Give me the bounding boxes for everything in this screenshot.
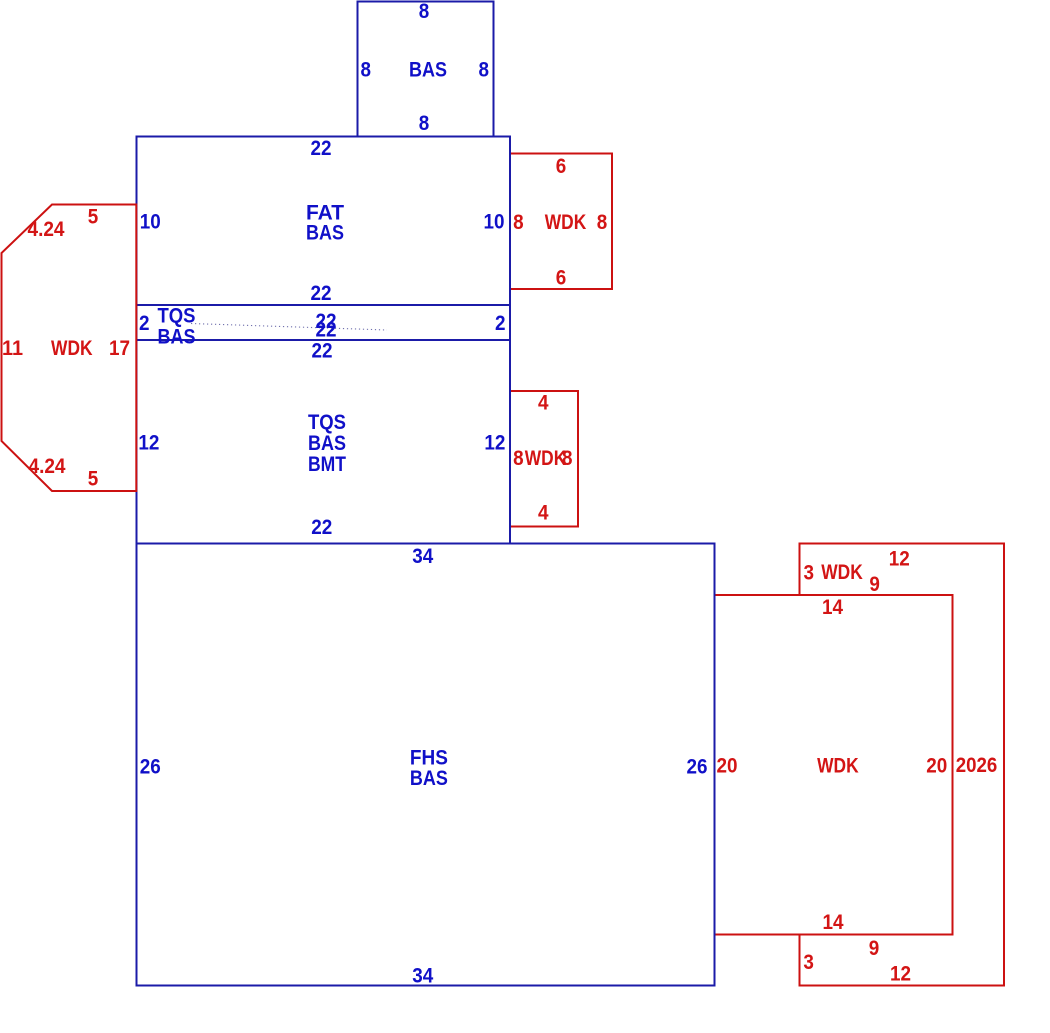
svg-text:34: 34 (412, 965, 433, 988)
svg-text:22: 22 (311, 137, 332, 160)
svg-text:BAS: BAS (306, 222, 344, 245)
svg-text:9: 9 (869, 573, 880, 596)
svg-text:2026: 2026 (956, 754, 998, 777)
svg-text:BAS: BAS (410, 767, 448, 790)
svg-text:5: 5 (88, 468, 99, 491)
svg-text:4: 4 (538, 502, 549, 525)
svg-text:2: 2 (139, 312, 150, 335)
svg-text:12: 12 (890, 963, 911, 986)
svg-text:22: 22 (316, 319, 337, 342)
svg-text:22: 22 (311, 282, 332, 305)
svg-text:8: 8 (513, 447, 524, 470)
svg-text:TQS: TQS (158, 305, 196, 328)
deck WDK 12x26 outer right (800, 544, 1005, 986)
deck WDK 14x20 right of FHS (715, 595, 953, 935)
svg-text:20: 20 (926, 755, 947, 778)
svg-text:5: 5 (88, 206, 99, 229)
deck WDK hexagon left (2, 205, 137, 492)
svg-text:6: 6 (556, 155, 567, 178)
svg-text:8: 8 (360, 59, 371, 82)
svg-text:12: 12 (138, 432, 159, 455)
svg-text:2: 2 (495, 312, 506, 335)
dotted reference line in strip (191, 324, 387, 331)
svg-text:4: 4 (538, 392, 549, 415)
deck WDK 4x8 right of TQS BMT (510, 391, 578, 527)
svg-text:WDK: WDK (821, 561, 863, 584)
svg-text:TQS: TQS (308, 411, 346, 434)
svg-text:10: 10 (484, 211, 505, 234)
svg-text:26: 26 (687, 756, 708, 779)
svg-text:4.24: 4.24 (29, 455, 66, 478)
svg-text:WDK: WDK (817, 755, 859, 778)
svg-text:6: 6 (556, 267, 567, 290)
svg-text:12: 12 (484, 432, 505, 455)
svg-text:BAS: BAS (158, 326, 196, 349)
area FAT BAS 22x10 (137, 137, 511, 306)
svg-text:BAS: BAS (308, 432, 346, 455)
svg-text:26: 26 (140, 756, 161, 779)
svg-text:34: 34 (412, 545, 433, 568)
svg-text:17: 17 (109, 337, 130, 360)
svg-text:3: 3 (804, 562, 815, 585)
area FHS BAS 34x26 (137, 544, 715, 986)
svg-text:12: 12 (889, 548, 910, 571)
svg-text:8: 8 (478, 59, 489, 82)
svg-text:8: 8 (419, 0, 430, 23)
deck WDK 6x8 right of FAT (510, 154, 612, 290)
svg-text:10: 10 (140, 211, 161, 234)
svg-text:4.24: 4.24 (28, 218, 65, 241)
svg-text:8: 8 (419, 112, 430, 135)
svg-text:20: 20 (717, 755, 738, 778)
svg-text:3: 3 (803, 951, 814, 974)
svg-text:9: 9 (869, 937, 880, 960)
svg-text:22: 22 (311, 516, 332, 539)
svg-text:BMT: BMT (308, 453, 346, 476)
svg-text:8: 8 (513, 211, 524, 234)
svg-text:BAS: BAS (409, 59, 447, 82)
svg-text:WDK: WDK (545, 211, 587, 234)
svg-text:22: 22 (312, 340, 333, 363)
svg-text:8: 8 (597, 211, 608, 234)
svg-text:WDK: WDK (525, 447, 567, 470)
svg-text:WDK: WDK (51, 337, 93, 360)
svg-text:14: 14 (822, 596, 843, 619)
svg-text:14: 14 (823, 911, 844, 934)
svg-text:11: 11 (2, 337, 23, 360)
area TQS BAS BMT 22x12 (137, 340, 511, 544)
svg-text:8: 8 (562, 447, 573, 470)
area TQS BAS strip 22x2 (137, 305, 511, 340)
area BAS 8x8 top (358, 2, 494, 137)
